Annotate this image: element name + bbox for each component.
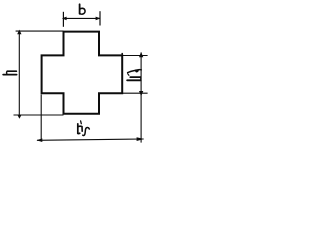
label h'f (rotated, right) bbox=[127, 70, 141, 81]
dimension b'f: left extension line bbox=[40, 95, 42, 141]
cross-section outline bbox=[42, 32, 123, 114]
dimension b: right arrowhead bbox=[96, 17, 101, 21]
dimension h: top extension line bbox=[16, 30, 64, 32]
dimension b'f: right arrowhead bbox=[137, 137, 145, 141]
dimension h: dimension line bbox=[18, 30, 20, 115]
dimension h: top arrowhead bbox=[17, 30, 21, 35]
dimension h'f: top arrowhead bbox=[139, 52, 143, 57]
dimension h'f: dimension / extension vertical line bbox=[140, 53, 142, 143]
label h'f (bottom) bbox=[78, 121, 90, 136]
dimension h: bottom arrowhead bbox=[17, 115, 21, 119]
dimension h: bottom extension line bbox=[14, 114, 64, 116]
dimension b: left extension tick bbox=[62, 12, 64, 27]
dimension b'f: left arrowhead bbox=[36, 138, 42, 142]
wire: arm right edge overshoot above flange top bbox=[121, 53, 123, 56]
dimension h'f: top extension line bbox=[122, 55, 147, 57]
dimension b'f (bottom): dimension line bbox=[37, 139, 144, 140]
dimension b: dimension line bbox=[64, 17, 100, 19]
dimension h'f: bottom extension line bbox=[122, 92, 147, 94]
dimension b: right extension tick bbox=[99, 11, 101, 25]
label b bbox=[80, 4, 85, 14]
dimension b: left arrowhead bbox=[62, 17, 67, 21]
dimension h'f: bottom arrowhead bbox=[139, 91, 143, 96]
label h (rotated) bbox=[3, 71, 16, 74]
